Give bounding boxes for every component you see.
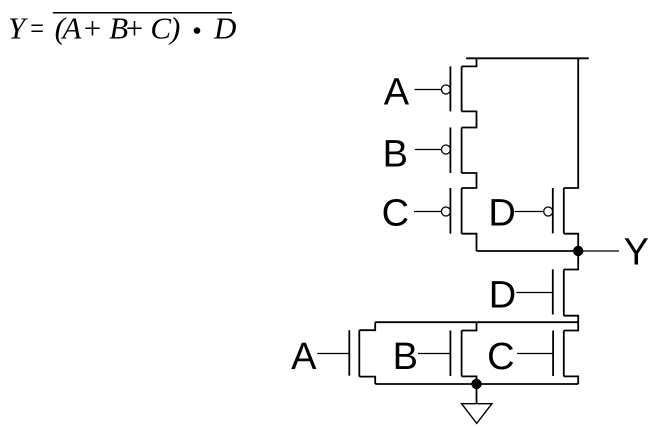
pmos A gate lead <box>415 89 442 91</box>
svg-text:C: C <box>150 11 171 46</box>
nmos A gate lead <box>317 353 349 355</box>
wire nmos B source to bottom rail <box>462 376 477 384</box>
wire node Y to nmos D drain <box>564 251 578 270</box>
nmos D <box>553 269 564 315</box>
svg-text:): ) <box>168 11 180 46</box>
nmos D gate lead <box>516 292 552 294</box>
svg-text:C: C <box>382 193 409 235</box>
node Y junction dot <box>573 246 583 256</box>
wire mid rail to nmos A drain <box>359 322 375 330</box>
wire mid rail to nmos B drain <box>462 322 477 330</box>
wire VDD to PMOS A drain <box>462 58 477 66</box>
nmos C gate lead <box>517 353 553 355</box>
nmos A <box>349 330 359 376</box>
pmos D gate lead <box>515 211 544 213</box>
pmos B gate lead <box>415 149 442 151</box>
wire pmos B source to pmos C drain <box>462 173 477 188</box>
equation Y = overline((A+B+C) . D) <box>8 11 236 46</box>
wire pmos D drain to VDD rail <box>564 58 578 188</box>
svg-text:C: C <box>487 336 514 378</box>
wire junction to ground <box>476 384 478 404</box>
equation overline <box>53 12 232 14</box>
wire nmos D source to mid rail <box>564 316 578 323</box>
nmos B gate lead <box>418 353 450 355</box>
svg-text:A: A <box>384 71 410 113</box>
svg-text:Y: Y <box>8 11 28 46</box>
wire nmos A source to bottom rail <box>359 377 375 384</box>
svg-text:D: D <box>213 11 236 46</box>
wire pmos A source to pmos B drain <box>462 111 477 127</box>
pmos B <box>441 128 461 174</box>
svg-text:A: A <box>291 336 317 378</box>
ground <box>462 404 492 424</box>
svg-text:B: B <box>393 336 418 378</box>
wire pmos C source down to node Y <box>462 234 477 251</box>
bottom rail (nmos sources to ground) <box>375 383 578 385</box>
nmos B <box>450 331 461 377</box>
svg-text:D: D <box>489 274 516 316</box>
pmos D <box>544 188 564 234</box>
svg-text:=: = <box>29 11 45 46</box>
nmos C <box>553 331 564 377</box>
svg-text:B: B <box>383 133 408 175</box>
svg-text:+: + <box>124 11 145 46</box>
svg-text:A: A <box>61 11 83 46</box>
VDD rail <box>466 57 589 59</box>
svg-text:+: + <box>82 11 103 46</box>
svg-text:D: D <box>488 193 515 235</box>
node Y rail <box>477 250 579 252</box>
mid rail (nmos D source to parallel A,B,C drains) <box>375 321 578 323</box>
pmos A <box>441 66 461 111</box>
wire pmos D source down to node Y <box>564 234 578 251</box>
ground junction dot <box>471 379 481 389</box>
wire nmos C source to bottom rail <box>564 376 578 384</box>
pmos C gate lead <box>414 211 441 213</box>
node Y lead to label <box>578 250 619 252</box>
svg-text:Y: Y <box>624 231 649 273</box>
wire mid rail to nmos C drain <box>564 322 578 330</box>
pmos C <box>441 188 461 234</box>
